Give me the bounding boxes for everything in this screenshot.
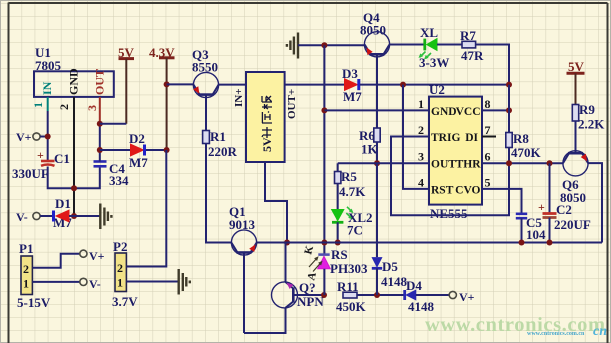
diode D1 M7 <box>53 196 101 230</box>
transistor Q? NPN <box>272 280 325 309</box>
svg-text:V+: V+ <box>459 290 475 304</box>
capacitor C2 220UF <box>538 163 591 242</box>
terminal V+ input <box>16 130 48 144</box>
booster module 5V boost board <box>233 72 298 162</box>
junction pin2 / C1 wire <box>71 185 77 191</box>
ground near D1 <box>100 204 111 230</box>
svg-text:2: 2 <box>57 104 71 110</box>
svg-text:1: 1 <box>418 97 424 111</box>
timer U2 NE555 <box>429 82 482 221</box>
svg-text:www.cntronics.com.cn: www.cntronics.com.cn <box>527 331 585 337</box>
transistor Q3 8550 <box>192 47 219 131</box>
ground top (near Q4) <box>287 33 298 59</box>
junction D3 wire / pin4 column <box>400 82 406 88</box>
svg-text:R1: R1 <box>210 129 226 144</box>
svg-text:V+: V+ <box>16 130 32 144</box>
svg-text:470K: 470K <box>511 145 542 160</box>
wire C1 bottom <box>48 167 100 189</box>
svg-text:7: 7 <box>485 123 491 137</box>
svg-text:2: 2 <box>418 123 424 137</box>
wire Q1 base loop to Q? <box>244 308 286 333</box>
svg-text:U2: U2 <box>429 82 445 97</box>
svg-text:V-: V- <box>16 210 28 224</box>
svg-text:220R: 220R <box>208 144 238 159</box>
terminal V- output <box>80 277 101 291</box>
junction 4.3V / D2 / P2 <box>164 147 170 153</box>
wire P2 pin2 up to 4.3V node <box>126 150 166 267</box>
svg-text:V+: V+ <box>89 249 105 263</box>
svg-text:4: 4 <box>418 176 424 190</box>
svg-text:D2: D2 <box>129 131 145 146</box>
svg-text:P1: P1 <box>19 241 33 256</box>
svg-text:8: 8 <box>485 97 491 111</box>
svg-text:2.2K: 2.2K <box>578 117 605 132</box>
svg-text:VCC: VCC <box>456 106 481 118</box>
svg-text:D5: D5 <box>382 259 398 274</box>
svg-text:R7: R7 <box>460 28 476 43</box>
wire U1 pin1 lead <box>47 97 49 111</box>
svg-text:1: 1 <box>23 277 29 291</box>
svg-text:IN: IN <box>40 81 54 95</box>
svg-text:1K: 1K <box>361 142 379 157</box>
junction pin6 wire / C2 column <box>547 160 553 166</box>
svg-text:THR: THR <box>456 159 482 171</box>
wire R6 down to OUT wire <box>376 142 378 163</box>
wire top ground to Q4 <box>298 44 365 46</box>
wire U2 pin2 TRIG loop <box>391 137 509 216</box>
svg-text:5V: 5V <box>260 137 274 152</box>
terminal V+ output <box>80 249 105 263</box>
svg-text:3.7V: 3.7V <box>112 294 138 309</box>
wire Q6 emitter to right edge <box>588 163 602 242</box>
svg-text:6: 6 <box>485 150 491 164</box>
junction top rail / long column <box>321 42 327 48</box>
regulator U1 7805 <box>34 45 114 97</box>
wire U2 pin6 THR to Q6 <box>482 162 563 164</box>
svg-text:CVO: CVO <box>455 185 480 197</box>
svg-text:5V: 5V <box>568 59 585 74</box>
svg-text:TRIG: TRIG <box>431 132 460 144</box>
svg-text:104: 104 <box>526 227 546 242</box>
wire booster OUT+ to D3 <box>285 84 345 86</box>
wire Q4 to XL <box>390 44 425 46</box>
wire 4.3V node to Q3 <box>167 83 194 85</box>
ground near P2 <box>179 269 190 295</box>
junction booster pin / rail <box>284 240 290 246</box>
watermark www.cntronics.com <box>425 314 607 339</box>
terminal V- input <box>16 210 52 224</box>
junction pin2 / D1 wire <box>71 213 77 219</box>
wire D3 to right column <box>360 84 509 86</box>
wire 5V to pin3 <box>100 123 127 125</box>
svg-text:450K: 450K <box>336 299 367 314</box>
transistor Q1 9013 <box>229 204 257 333</box>
svg-text:2: 2 <box>117 261 123 275</box>
wire R1 down to rail <box>206 144 231 243</box>
wire U2 pin3 OUT to R5 <box>338 162 429 164</box>
junction C2 / rail <box>547 240 553 246</box>
U2 pin numbers <box>418 97 491 190</box>
svg-text:5-15V: 5-15V <box>17 295 51 310</box>
junction column / GND rail y110 <box>321 107 327 113</box>
wire GND rail to U2 pin1 <box>324 109 429 111</box>
resistor R9 2.2K <box>572 102 605 153</box>
junction pin3 / 5V <box>97 121 103 127</box>
wire U2 pin8 VCC <box>482 109 509 111</box>
svg-text:8050: 8050 <box>360 23 386 38</box>
svg-text:330UF: 330UF <box>12 166 49 181</box>
svg-text:D1: D1 <box>55 196 71 211</box>
svg-text:DI: DI <box>465 132 478 144</box>
wire Q3 to booster IN+ <box>219 84 246 86</box>
diode D4 4148 <box>405 278 450 314</box>
svg-text:4148: 4148 <box>408 299 435 314</box>
LED XL2 7C <box>332 184 373 243</box>
svg-text:Q?: Q? <box>299 280 316 295</box>
sheet border left <box>8 3 10 343</box>
svg-text:R8: R8 <box>513 131 529 146</box>
resistor R7 47R <box>460 28 484 63</box>
svg-text:OUT+: OUT+ <box>286 89 298 119</box>
junction 4.3V / Q3 base wire <box>164 81 170 87</box>
svg-text:334: 334 <box>109 173 129 188</box>
junction pin6 / R8 column <box>506 160 512 166</box>
sheet border right <box>607 3 609 343</box>
svg-text:V-: V- <box>89 277 101 291</box>
junction pin8 / right column <box>506 107 512 113</box>
svg-text:2: 2 <box>23 262 29 276</box>
wire R7 to right column <box>476 45 509 85</box>
svg-text:OUT: OUT <box>431 159 456 171</box>
svg-text:47R: 47R <box>461 48 484 63</box>
svg-text:+: + <box>538 200 545 214</box>
power 4.3V <box>149 45 175 150</box>
svg-text:3: 3 <box>85 105 99 111</box>
svg-text:R9: R9 <box>579 102 595 117</box>
junction D3 wire / right column <box>506 82 512 88</box>
svg-text:IN+: IN+ <box>233 89 245 108</box>
junction R6 / OUT wire / D5 column <box>374 160 380 166</box>
svg-text:1: 1 <box>117 276 123 290</box>
LED XL 3-3W <box>419 25 450 70</box>
junction C5 / rail <box>519 240 525 246</box>
wire rail down to Q? collector <box>285 243 287 283</box>
svg-text:GND: GND <box>431 106 457 118</box>
transistor Q6 8050 <box>560 151 588 205</box>
capacitor C5 104 <box>516 214 546 243</box>
svg-text:XL: XL <box>420 25 438 40</box>
resistor R5 4.7K <box>335 163 367 199</box>
svg-text:4148: 4148 <box>381 274 408 289</box>
junction column / bottom rail <box>321 240 327 246</box>
power 5V left <box>118 45 135 124</box>
wire U2 pin5 CVO to C5 <box>482 189 522 213</box>
connector P2 <box>112 239 138 309</box>
svg-text:OUT: OUT <box>93 69 107 95</box>
diode D2 M7 <box>100 131 167 170</box>
wire booster bottom pin <box>265 162 287 243</box>
svg-text:R5: R5 <box>341 169 357 184</box>
junction Q? base / RS column <box>321 292 327 298</box>
wire U2 pin7 DI stub <box>482 136 496 138</box>
sheet border top <box>9 2 608 4</box>
svg-text:M7: M7 <box>343 89 362 104</box>
svg-text:GND: GND <box>67 68 81 95</box>
svg-text:3: 3 <box>418 150 424 164</box>
svg-text:3-3W: 3-3W <box>419 55 449 70</box>
junction V+ / pin1 <box>45 134 51 140</box>
wire U2 pin4 RST column <box>403 85 429 189</box>
svg-text:C1: C1 <box>54 151 70 166</box>
power 5V right <box>567 59 585 105</box>
wire U1 pin3 lead <box>99 97 101 124</box>
svg-text:4.7K: 4.7K <box>339 184 366 199</box>
svg-text:8050: 8050 <box>560 190 586 205</box>
svg-text:7C: 7C <box>347 223 363 238</box>
resistor R11 450K <box>336 279 405 314</box>
svg-text:M7: M7 <box>129 155 148 170</box>
resistor R1 220R <box>203 129 238 159</box>
terminal V+ right <box>449 290 474 304</box>
svg-text:7805: 7805 <box>35 58 62 73</box>
svg-text:NPN: NPN <box>297 294 324 309</box>
resistor R8 470K <box>506 85 542 164</box>
svg-text:PH303: PH303 <box>330 261 368 276</box>
resistor R6 1K <box>359 128 380 157</box>
junction XL2 / rail <box>335 240 341 246</box>
wire U1 pin2 lead <box>73 97 75 216</box>
transistor Q4 8050 <box>360 10 390 128</box>
svg-text:RST: RST <box>431 185 454 197</box>
wire XL to R7 <box>437 44 462 46</box>
capacitor C4 334 <box>94 161 130 188</box>
wire P2 pin1 to ground <box>126 281 178 283</box>
photodiode RS PH303 <box>302 244 368 295</box>
junction pin3 / D2 wire <box>97 147 103 153</box>
wire P1 pin1 to V- <box>32 281 79 283</box>
svg-text:5: 5 <box>485 176 491 190</box>
wire long column (ground rail down) <box>323 45 325 254</box>
diode D5 4148 <box>372 163 408 295</box>
svg-text:1: 1 <box>31 102 45 108</box>
connector P1 <box>17 241 51 310</box>
svg-text:cn: cn <box>593 324 607 339</box>
junction R11 wire / D5 column <box>374 292 380 298</box>
diode D3 M7 <box>342 66 362 104</box>
bottom rail <box>257 242 602 244</box>
capacitor C1 330UF <box>12 148 70 181</box>
svg-text:NE555: NE555 <box>430 206 468 221</box>
wire P1 pin2 to V+ <box>32 254 79 268</box>
svg-text:RS: RS <box>331 247 348 262</box>
svg-text:220UF: 220UF <box>554 217 591 232</box>
svg-text:P2: P2 <box>113 239 127 254</box>
